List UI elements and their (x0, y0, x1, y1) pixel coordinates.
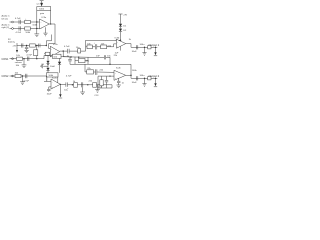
wire row1 up to IC1b (44, 56, 48, 59)
node dot out IC2b (130, 75, 131, 76)
svg-text:4.7uF: 4.7uF (15, 18, 21, 20)
node dot rail1 (70, 56, 71, 57)
wire fb drop (130, 64, 132, 78)
fb top wire (93, 56, 104, 58)
node dot bias (46, 45, 47, 46)
svg-text:IC2a: IC2a (52, 78, 57, 80)
wire corner left (85, 40, 87, 51)
resistor R2 (25, 27, 31, 34)
capacitor C10 to ground (47, 87, 53, 96)
node dot fb1 (109, 64, 110, 65)
wire +input IC2a (49, 86, 51, 88)
node dot out2b (144, 78, 145, 79)
wire input row B (10, 28, 40, 30)
svg-text:Output 1: Output 1 (149, 43, 160, 47)
resistor R18 (78, 58, 90, 62)
ground arrow jack1 (154, 47, 157, 56)
node dot A (36, 21, 37, 22)
op-amp IC2b (114, 68, 126, 81)
ground below IC3a (43, 27, 47, 36)
svg-text:10uF: 10uF (50, 66, 56, 68)
op-amp IC2a (51, 78, 60, 90)
resistor R22 vertical (98, 76, 103, 88)
capacitor C12 with ground (80, 82, 85, 94)
connector J4 (12, 75, 14, 77)
supply arrow (12, 43, 18, 53)
cap to ground IC2b (117, 78, 125, 88)
op-amp IC3b (115, 37, 126, 48)
wire output IC3b (126, 44, 158, 48)
connector J3 (12, 58, 14, 60)
capacitor C21 vertical (105, 76, 108, 88)
capacitor C19 (96, 69, 97, 75)
wire drop to mid rail (62, 51, 64, 57)
wire R9 to rail (61, 55, 70, 58)
node dot chain (47, 64, 48, 65)
svg-text:1uF: 1uF (115, 53, 119, 55)
capacitor C16 (94, 43, 97, 50)
capacitor C5 to ground (24, 46, 28, 53)
svg-text:10uF: 10uF (132, 51, 138, 53)
node dot out2 (63, 50, 64, 51)
capacitor C6 (39, 44, 40, 48)
wire bias chain vertical (47, 56, 49, 78)
resistor R12 (89, 81, 97, 88)
svg-text:100u: 100u (140, 75, 146, 77)
ground arrow jack2 (154, 78, 157, 87)
svg-text:right (2): right (2) (2, 26, 10, 29)
wire (97, 46, 101, 48)
resistor R13 (15, 72, 21, 77)
capacitor C17 (132, 45, 138, 53)
ground row2 (20, 76, 25, 84)
wire output IC2a (60, 83, 65, 85)
resistor R14 (16, 55, 22, 60)
svg-text:IC3a: IC3a (42, 17, 47, 19)
node dot output1 (50, 23, 51, 24)
resistor R19 (87, 68, 94, 74)
diode D1 (46, 61, 49, 64)
wire fb right IC2a (57, 77, 59, 84)
wire stage1 to stage2 (49, 24, 56, 48)
bias rail wire (86, 39, 121, 41)
svg-text:+9V: +9V (123, 14, 127, 16)
trimpot VR1 (36, 1, 43, 7)
node dot row1 junction (36, 58, 37, 59)
long mid rail (63, 56, 93, 59)
wire long to plus (111, 85, 113, 88)
resistor R11 (73, 81, 78, 87)
node dot bias right (120, 40, 121, 41)
node dot bl1 (72, 84, 73, 85)
resistor R10 feedback IC2a (46, 73, 58, 77)
svg-text:+9V: +9V (12, 45, 16, 47)
wire into minus IC2a (44, 80, 51, 82)
node dot B (36, 28, 37, 29)
wire output row2 (131, 77, 157, 79)
ground left of chain (40, 64, 48, 68)
resistor R9 (52, 54, 61, 58)
resistor R8 (76, 47, 81, 53)
node dot bl2 (87, 84, 88, 85)
capacitor C11 4.7uF (64, 76, 72, 92)
svg-text:Audio in: Audio in (2, 24, 11, 27)
svg-text:Audio in: Audio in (2, 15, 11, 18)
ground below junction (34, 34, 39, 37)
svg-text:set: set (36, 2, 39, 5)
svg-text:4.7uF: 4.7uF (64, 46, 70, 48)
node dot supply (26, 45, 27, 46)
wires row (94, 71, 96, 73)
node dot row2 (22, 75, 23, 76)
node dot rail3 (116, 40, 117, 41)
wire input row A (10, 21, 40, 23)
ground stub out2 (142, 78, 146, 86)
diode D5 (119, 27, 127, 32)
node dot out IC2a (60, 84, 61, 85)
connector J2 (12, 28, 14, 30)
svg-text:4.7uF: 4.7uF (66, 76, 72, 78)
fb left vertical with cap (67, 56, 72, 65)
diode D3 (58, 58, 61, 72)
node dot jack1 (155, 47, 156, 48)
node dot row1 (23, 58, 24, 59)
svg-text:IC3b: IC3b (115, 37, 120, 39)
svg-text:4.7uF: 4.7uF (23, 80, 29, 82)
capacitor C4 (21, 43, 23, 47)
wire row1 (10, 58, 45, 60)
capacitor C2 4.7uF (16, 26, 22, 34)
ground stub out1 (142, 47, 146, 55)
svg-text:10uF: 10uF (132, 82, 138, 84)
node dot rail-divider (36, 45, 37, 46)
wire output stage2 (60, 50, 68, 52)
connector J1 (12, 21, 14, 23)
wire bias to +input (44, 53, 50, 55)
svg-text:CON1: CON1 (2, 58, 10, 61)
resistor R3 feedback (37, 7, 51, 15)
wire output IC2b (126, 74, 131, 76)
svg-text:battery: battery (8, 41, 16, 44)
bottom wire plus net (98, 87, 112, 89)
svg-text:IC1b: IC1b (53, 44, 58, 46)
wire diode to rail (120, 32, 122, 41)
wire summing junction (36, 10, 38, 33)
capacitor C14 (23, 74, 29, 83)
svg-text:1nF: 1nF (96, 55, 100, 57)
node dot out right (144, 47, 145, 48)
node dot jack2 (155, 78, 156, 79)
op-amp IC1b (50, 44, 59, 57)
resistor R4 vertical (34, 46, 38, 59)
wire feedback right (50, 10, 52, 23)
wire into minus (107, 44, 117, 47)
op-amp IC3a (40, 17, 50, 30)
resistor R21 (148, 77, 151, 80)
wire fb corner (106, 57, 110, 64)
resistor R1 (25, 18, 38, 26)
mid rail wire (48, 55, 52, 57)
svg-text:IC2b: IC2b (116, 68, 121, 70)
resistor R7 (45, 52, 50, 55)
capacitor C8 4.7uF (64, 46, 70, 53)
capacitor C20 (132, 76, 138, 84)
wire supply rail (17, 45, 37, 47)
svg-text:Output 2: Output 2 (149, 74, 160, 78)
pin stub IC3b (119, 46, 121, 50)
wire bottom long (68, 84, 112, 86)
svg-text:4.7uF: 4.7uF (16, 32, 22, 34)
node dot plus (109, 76, 110, 77)
wire after C8 (69, 50, 85, 52)
capacitor C1 4.7uF (15, 18, 21, 24)
wire row2 from left (32, 76, 47, 81)
capacitor C18 (96, 55, 106, 59)
capacitor C15 (26, 55, 32, 61)
svg-text:CON2: CON2 (2, 75, 10, 78)
resistor R17 (148, 46, 151, 49)
resistor R15 (87, 43, 92, 48)
resistor R6 (30, 44, 36, 47)
wire output stage1 (49, 23, 55, 25)
svg-text:left (1): left (1) (2, 18, 8, 21)
svg-text:10uF: 10uF (47, 94, 53, 96)
wire (92, 46, 95, 48)
wire rail to divider (37, 45, 47, 47)
diode D4 (119, 24, 127, 28)
diode D2 (46, 68, 49, 71)
wire fb left IC2a (46, 77, 48, 81)
resistor R16 (101, 43, 107, 48)
power rail symbol (119, 14, 128, 24)
wire row2 (10, 75, 33, 77)
svg-text:4.7uF: 4.7uF (26, 55, 32, 57)
wire R18 stubs (75, 60, 78, 62)
node dot rail2 (78, 57, 79, 58)
ground arrow below IC2a (59, 84, 63, 98)
ground stub right (94, 85, 99, 97)
ground row1 (15, 59, 27, 68)
wire plus row (98, 75, 114, 77)
svg-text:100u: 100u (140, 44, 146, 46)
fb bottom wire (70, 63, 131, 65)
wire bias staircase (46, 35, 51, 46)
